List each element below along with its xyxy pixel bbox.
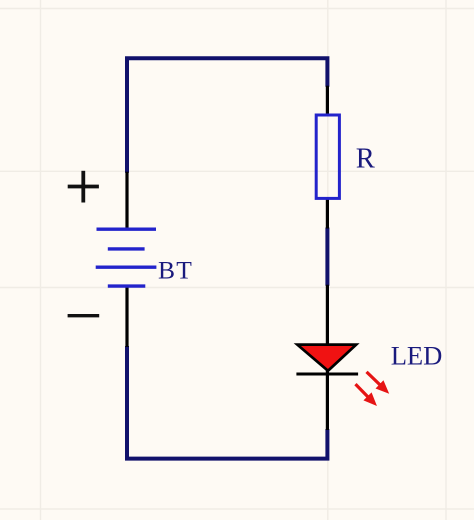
svg-text:LED: LED [391,341,443,371]
svg-text:BT: BT [158,255,193,284]
svg-text:R: R [356,144,376,175]
